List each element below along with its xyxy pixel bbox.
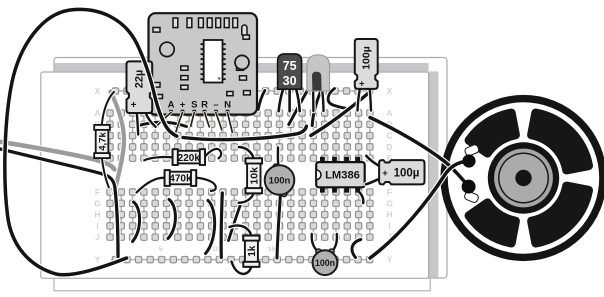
terminal strip column lines [110, 110, 370, 241]
svg-text:100n: 100n [269, 176, 291, 187]
resistor 10k leads [239, 147, 254, 158]
jumper LM386 pin to G23 [357, 190, 364, 204]
svg-text:22µ: 22µ [134, 70, 146, 89]
svg-text:100µ: 100µ [394, 167, 420, 179]
module misc pads [153, 28, 160, 33]
svg-text:X: X [95, 86, 101, 96]
c-jumper F9-Y9 [206, 201, 215, 254]
op-amp LM386 body [316, 162, 365, 187]
electrolytic capacitor 100u horizontal [379, 160, 424, 184]
svg-text:Y: Y [387, 255, 393, 265]
breadboard right shading band [429, 71, 439, 277]
electrolytic capacitor 100u (second) leads [366, 156, 379, 166]
module pin wires into breadboard [157, 113, 172, 127]
module coil circle left [160, 42, 174, 56]
LED D1 [307, 55, 330, 91]
svg-text:15: 15 [268, 246, 276, 253]
curled jumper near X rail col 20 [328, 89, 346, 109]
speaker terminal dot upper [462, 154, 475, 167]
ceramic disc capacitor 100n (second) [313, 249, 338, 275]
module pill component [242, 25, 247, 36]
svg-text:100n: 100n [315, 258, 335, 268]
svg-text:5: 5 [159, 246, 163, 253]
vertical wire F11 to Y rail col 10 [221, 193, 222, 258]
transistor legs [279, 89, 283, 111]
electrolytic capacitor 22u [127, 61, 153, 113]
transistor Q1 (75/30) [278, 54, 302, 89]
svg-text:R: R [201, 100, 208, 111]
svg-text:F: F [95, 187, 100, 197]
svg-text:A: A [386, 108, 392, 118]
gray input wire from left edge [0, 142, 115, 170]
speaker center dot [515, 170, 531, 186]
electrolytic capacitor 100u vertical [355, 39, 378, 90]
resistor 470k leads [137, 178, 166, 193]
svg-text:F: F [387, 187, 392, 197]
svg-text:X: X [387, 86, 393, 96]
svg-text:470k: 470k [169, 174, 192, 185]
resistor 220k leads [144, 157, 173, 160]
svg-text:S: S [191, 100, 197, 111]
svg-text:+: + [131, 100, 137, 111]
speaker terminal tab lower [464, 191, 480, 204]
jumper X rail to B16 [289, 88, 309, 125]
resistor 470k [165, 170, 197, 186]
jumper X rail to B18 [312, 89, 322, 126]
breadboard backplate [54, 58, 447, 279]
svg-text:D: D [386, 142, 392, 152]
short diagonal wire G12-J11 [229, 205, 241, 241]
speaker outer rim [444, 99, 603, 258]
breadboard top shading band [55, 63, 429, 71]
svg-text:4,7k: 4,7k [97, 132, 108, 151]
svg-text:G: G [94, 198, 101, 208]
svg-text:A: A [168, 100, 175, 111]
breadboard bottom skirt [54, 278, 430, 291]
svg-text:220k: 220k [178, 153, 201, 164]
svg-text:N: N [224, 100, 231, 111]
wire 22u hole to module area (row B arc) [138, 122, 187, 126]
svg-text:A: A [94, 108, 100, 118]
svg-text:+: + [359, 79, 365, 90]
long wire from E15 down to Y rail col 14 (100n lead) [277, 194, 281, 258]
capacitor 22u leads [137, 113, 138, 134]
module trimmer circle right [235, 55, 249, 69]
resistor 4.7k [94, 125, 110, 158]
electrolytic capacitor 100u (first) leads [358, 89, 360, 110]
svg-text:Y: Y [95, 255, 101, 265]
svg-text:H: H [386, 210, 392, 220]
ceramic disc capacitor 100n (first) top lead [276, 148, 281, 167]
svg-text:C: C [386, 131, 392, 141]
radio module PCB [149, 13, 258, 114]
svg-text:I: I [96, 221, 98, 231]
resistor 1k [243, 236, 259, 267]
LED legs [311, 91, 316, 111]
resistor 4.7k leads [102, 92, 114, 125]
breadboard face plate [41, 72, 429, 278]
svg-text:+: + [180, 100, 186, 111]
speaker body backing [441, 95, 604, 261]
svg-text:J: J [95, 232, 100, 242]
module IC U1 [204, 40, 223, 83]
breadboard holes grid [112, 88, 118, 94]
LM386 op-amp IC pins [320, 157, 325, 163]
svg-text:–: – [213, 100, 218, 111]
svg-text:G: G [386, 198, 393, 208]
ceramic disc capacitor 100n (first) [265, 164, 295, 197]
c-jumper G6-J6 [168, 200, 175, 239]
speaker magnet rings [484, 139, 563, 218]
resistor 220k [173, 149, 205, 165]
svg-text:1k: 1k [247, 245, 258, 257]
c-jumper J to Y rail right [352, 240, 361, 258]
jumper X rail to A13 [258, 91, 265, 110]
speaker wire lower (to upper terminal) [370, 161, 468, 258]
svg-text:30: 30 [283, 74, 297, 88]
gray wire X rail col1 to F1 (S-curve) [111, 92, 125, 194]
svg-text:100µ: 100µ [360, 46, 372, 70]
bus rail lines X and Y [111, 91, 372, 260]
speaker frame cutouts [532, 113, 589, 170]
c-jumper G3-J3 [133, 202, 140, 242]
speaker wire upper (to lower terminal) [370, 118, 468, 186]
wire from left edge down to Y rail col1 [0, 149, 118, 257]
svg-text:+: + [382, 168, 388, 179]
svg-text:H: H [94, 210, 100, 220]
long wire row C cols 7-18 [183, 126, 306, 139]
diagonal wire C18 to X rail col 23 [311, 93, 369, 136]
antenna loop wire [5, 9, 177, 274]
svg-text:I: I [388, 221, 390, 231]
speaker terminal tab upper [464, 144, 480, 157]
speaker terminal dot lower [462, 180, 476, 194]
svg-text:LM386: LM386 [325, 170, 360, 182]
resistor 10k [246, 158, 263, 193]
svg-text:75: 75 [283, 59, 297, 73]
module SMD pads top row [173, 18, 178, 28]
svg-text:10k: 10k [249, 167, 261, 185]
resistor 1k leads [230, 225, 252, 235]
ceramic disc capacitor 100n (second) leads [312, 234, 319, 252]
